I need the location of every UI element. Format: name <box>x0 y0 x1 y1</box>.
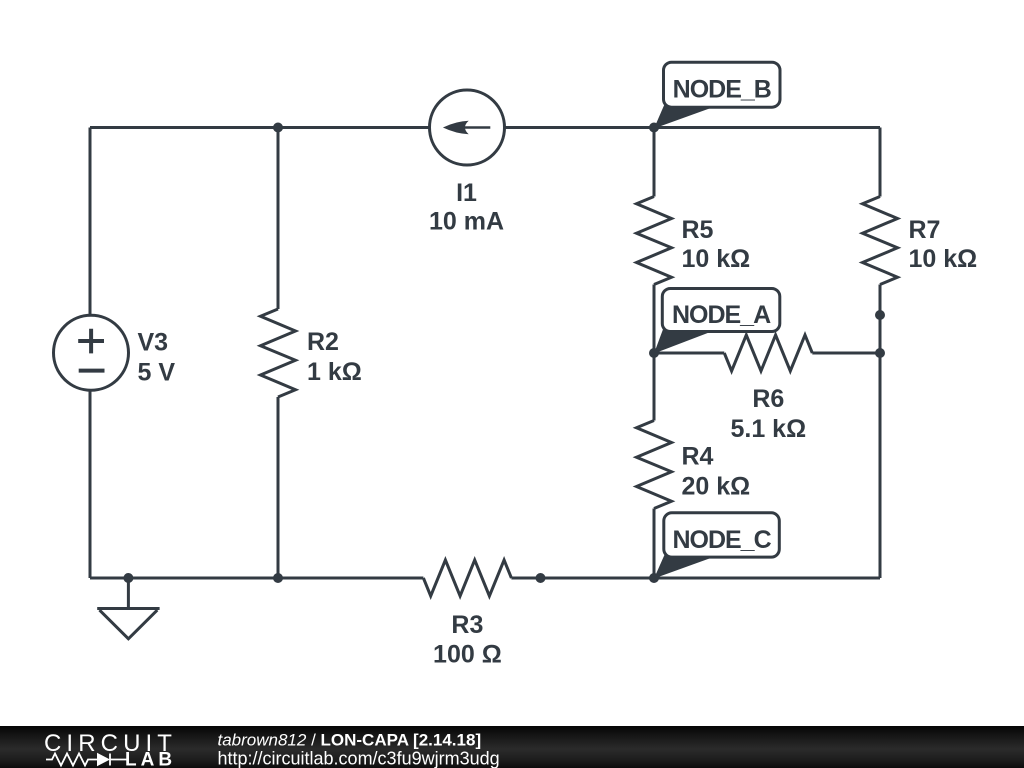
svg-text:5 V: 5 V <box>138 358 176 386</box>
junction ground <box>123 573 133 583</box>
resistor R2 <box>277 128 280 310</box>
svg-text:R3: R3 <box>451 611 483 639</box>
junction R2 bottom <box>273 573 283 583</box>
svg-text:I1: I1 <box>456 179 477 207</box>
svg-text:NODE_A: NODE_A <box>672 301 771 329</box>
junction NODE_B <box>649 123 659 133</box>
resistor R5 <box>653 128 656 197</box>
svg-text:R7: R7 <box>909 216 941 244</box>
wire left vertical lower <box>89 390 92 578</box>
wire top right horizontal <box>505 126 881 129</box>
junction R3 right <box>536 573 546 583</box>
resistor R3 <box>423 560 511 596</box>
svg-text:20 kΩ: 20 kΩ <box>682 473 751 501</box>
resistor R7 <box>863 197 898 285</box>
wire top left horizontal <box>90 126 430 129</box>
junction R2 top <box>273 123 283 133</box>
junction NODE_C <box>649 573 659 583</box>
flag box NODE_C <box>664 513 780 557</box>
junction R7 bottom <box>875 310 885 320</box>
resistor R4 <box>653 353 656 421</box>
flag pointer NODE_C <box>654 554 712 578</box>
resistor R6 <box>654 352 724 355</box>
wire bottom left horizontal <box>90 577 423 580</box>
svg-text:1 kΩ: 1 kΩ <box>307 358 362 386</box>
flag box NODE_A <box>662 289 780 332</box>
svg-text:10 mA: 10 mA <box>429 208 504 236</box>
svg-text:http://circuitlab.com/c3fu9wjr: http://circuitlab.com/c3fu9wjrm3udg <box>218 749 500 768</box>
svg-text:NODE_B: NODE_B <box>673 76 771 104</box>
svg-text:LAB: LAB <box>125 750 176 768</box>
junction R6 right <box>875 348 885 358</box>
ground <box>127 578 130 609</box>
wire right vertical <box>879 128 882 197</box>
svg-text:R6: R6 <box>752 385 784 413</box>
voltage source V3 <box>54 315 129 390</box>
svg-text:R5: R5 <box>682 216 714 244</box>
wire left vertical upper <box>89 128 92 316</box>
svg-text:5.1 kΩ: 5.1 kΩ <box>730 415 806 443</box>
svg-text:V3: V3 <box>138 328 169 356</box>
wire bottom right horizontal <box>511 577 880 580</box>
svg-text:R2: R2 <box>307 328 339 356</box>
wire right vertical lower <box>879 285 882 579</box>
svg-text:NODE_C: NODE_C <box>672 526 771 554</box>
flag pointer NODE_A <box>654 329 710 354</box>
svg-text:100 Ω: 100 Ω <box>433 641 502 669</box>
CircuitLab logo resistor-diode squiggle <box>46 754 127 766</box>
svg-text:R4: R4 <box>682 443 714 471</box>
current source I1 <box>430 90 505 165</box>
junction NODE_A <box>649 348 659 358</box>
svg-text:10 kΩ: 10 kΩ <box>682 245 751 273</box>
flag pointer NODE_B <box>654 104 712 128</box>
svg-text:tabrown812 / LON-CAPA [2.14.18: tabrown812 / LON-CAPA [2.14.18] <box>218 731 482 750</box>
svg-text:10 kΩ: 10 kΩ <box>909 245 978 273</box>
flag box NODE_B <box>664 62 781 107</box>
